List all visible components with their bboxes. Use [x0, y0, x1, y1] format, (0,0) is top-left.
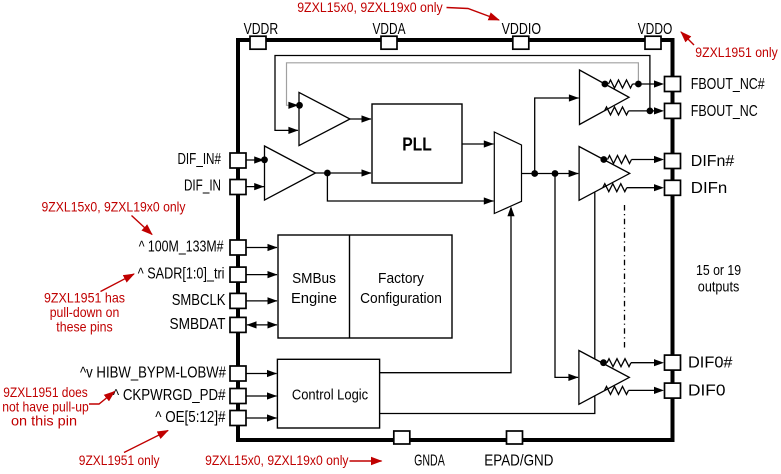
arrowhead into DIF0# pin — [654, 359, 664, 366]
arrowhead into mux input B — [484, 197, 494, 204]
arrowhead SMBDAT back to pin — [247, 321, 257, 328]
arrowhead into feedback buffer inverting input — [288, 102, 298, 109]
pin VDDR — [250, 36, 266, 49]
junction dot FBOUT_NC# tap — [602, 81, 609, 88]
pin DIF_IN — [230, 180, 246, 195]
red arrow to VDDIO — [447, 8, 500, 21]
svg-text:9ZXL15x0, 9ZXL19x0 only: 9ZXL15x0, 9ZXL19x0 only — [205, 452, 348, 468]
wire OE[5:12]# pin to Control Logic — [246, 417, 277, 419]
arrowhead into DIF0 pin — [654, 387, 664, 394]
wire node to DIF0 buffer input — [555, 174, 578, 378]
arrowhead into FBOUT_NC pin — [654, 107, 664, 114]
svg-text:9ZXL1951 only: 9ZXL1951 only — [695, 44, 777, 60]
svg-text:^ SADR[1:0]_tri: ^ SADR[1:0]_tri — [138, 266, 225, 283]
junction node mux output to DIF0 — [552, 170, 559, 177]
wire DIF0 to pin — [629, 389, 656, 391]
wire DIF_IN pin to input buffer — [246, 186, 264, 188]
pin VDDIO — [513, 36, 529, 49]
resistor DIFn series — [603, 184, 627, 192]
wire Control Logic to mux select — [380, 208, 511, 373]
pin SADR[1:0]_tri — [230, 267, 246, 282]
divider between SMBus Engine and Factory Configuration — [349, 235, 351, 338]
svg-text:Configuration: Configuration — [360, 290, 442, 307]
wire DIFn to pin — [627, 187, 655, 189]
red arrow to VDDO — [681, 32, 694, 45]
arrowhead into feedback buffer input — [288, 127, 298, 134]
feedback input buffer — [299, 92, 350, 145]
FBOUT output buffer — [580, 70, 630, 125]
junction node input buffer output — [324, 170, 331, 177]
red arrow to CKPWRGD_PD# — [89, 392, 115, 405]
arrowhead HIBW into Control Logic — [267, 370, 277, 377]
svg-text:DIF_IN#: DIF_IN# — [178, 151, 222, 168]
pin DIFn — [665, 180, 681, 195]
svg-text:SMBus: SMBus — [292, 270, 336, 287]
arrowhead SMBDAT into SMBus — [268, 321, 278, 328]
pin FBOUT_NC# — [665, 77, 681, 92]
arrowhead into DIFn pin — [654, 184, 664, 191]
arrowhead into PLL fb input — [362, 115, 372, 122]
arrowhead OE into Control Logic — [267, 414, 277, 421]
arrowhead into DIFn# pin — [654, 156, 664, 163]
svg-text:Engine: Engine — [291, 290, 337, 307]
svg-text:^ CKPWRGD_PD#: ^ CKPWRGD_PD# — [113, 387, 226, 404]
arrowhead into DIF0 buffer — [568, 374, 578, 381]
junction dot feedback buffer inverting input — [296, 102, 303, 109]
svg-text:DIF0: DIF0 — [688, 383, 726, 400]
pin EPAD/GND — [507, 431, 523, 444]
resistor DIF0# series — [607, 359, 631, 367]
svg-text:^ 100M_133M#: ^ 100M_133M# — [139, 239, 224, 256]
svg-text:^ OE[5:12]#: ^ OE[5:12]# — [155, 409, 226, 426]
svg-text:VDDIO: VDDIO — [502, 21, 541, 38]
wire CKPWRGD_PD# pin to Control Logic — [246, 395, 277, 397]
svg-text:Factory: Factory — [378, 270, 424, 287]
pin GNDA — [394, 431, 410, 444]
wire FBOUT_NC feedback loop — [275, 56, 650, 131]
red arrow to OE[5:12]# — [124, 431, 168, 453]
pin 100M_133M# — [230, 240, 246, 255]
wire Control Logic enable to output buffers — [380, 193, 595, 414]
arrowhead SMBCLK into SMBus — [268, 297, 278, 304]
junction dot DIF0# tap — [600, 359, 607, 366]
wire mux output to DIFn buffer — [522, 173, 579, 175]
pin SMBCLK — [230, 293, 246, 308]
pin VDDO — [645, 36, 661, 49]
svg-text:FBOUT_NC#: FBOUT_NC# — [691, 76, 765, 93]
svg-text:on this pin: on this pin — [11, 413, 77, 429]
DIF_IN input buffer — [265, 146, 316, 200]
pin CKPWRGD_PD# — [230, 389, 246, 404]
pin VDDA — [381, 36, 397, 49]
arrowhead into DIF_IN buffer inverting input — [254, 156, 264, 163]
svg-text:GNDA: GNDA — [414, 452, 445, 469]
svg-text:DIFn: DIFn — [691, 180, 728, 197]
arrowhead into DIF_IN buffer input — [254, 183, 264, 190]
svg-text:DIF_IN: DIF_IN — [184, 178, 221, 195]
wire 100M_133M# pin to SMBus Engine — [246, 247, 277, 249]
arrowhead into FBOUT_NC# pin — [654, 80, 664, 87]
wire input buffer output to PLL input — [316, 172, 372, 174]
ellipsis for repeated outputs — [624, 205, 626, 349]
DIF0 output buffer — [579, 351, 629, 405]
pin HIBW_BYPM-LOBW# — [230, 366, 246, 381]
resistor DIF0 series — [605, 386, 629, 394]
junction dot DIF_IN# input — [261, 156, 268, 163]
wire node to FBOUT buffer input — [535, 98, 579, 174]
DIFn output buffer — [579, 147, 630, 201]
svg-text:these pins: these pins — [56, 318, 112, 334]
svg-text:Control Logic: Control Logic — [292, 387, 369, 404]
arrowhead into FBOUT buffer — [569, 94, 579, 101]
wire HIBW_BYPM-LOBW# pin to Control Logic — [246, 373, 277, 375]
arrowhead into PLL ref input — [362, 169, 372, 176]
svg-text:^v HIBW_BYPM-LOBW#: ^v HIBW_BYPM-LOBW# — [80, 365, 226, 382]
pin OE[5:12]# — [230, 411, 246, 426]
wire SMBCLK pin to SMBus Engine — [246, 300, 277, 302]
red arrow to GNDA — [350, 460, 382, 462]
pin DIF0# — [665, 355, 681, 370]
pin SMBDAT — [230, 317, 246, 332]
pin FBOUT_NC — [665, 103, 681, 118]
wire FBOUT_NC# to pin — [633, 83, 656, 85]
wire FBOUT_NC to pin — [629, 110, 656, 112]
junction dot FBOUT_NC# feedback — [635, 81, 642, 88]
arrowhead into DIFn buffer — [569, 170, 579, 177]
svg-text:15 or 19: 15 or 19 — [696, 262, 741, 279]
wire FBOUT_NC# feedback loop (gray) — [287, 63, 639, 106]
pin DIFn# — [665, 154, 681, 169]
svg-text:PLL: PLL — [402, 133, 432, 154]
PLL block — [372, 104, 462, 183]
svg-text:SMBCLK: SMBCLK — [172, 292, 226, 309]
clock mux — [494, 132, 521, 214]
junction dot DIFn# tap — [600, 156, 607, 163]
svg-text:DIF0#: DIF0# — [688, 355, 733, 372]
wire DIFn# to pin — [632, 159, 656, 161]
arrowhead 100M_133M# into SMBus — [268, 244, 278, 251]
pin DIF0 — [665, 383, 681, 398]
red arrow to 100M_133M# — [132, 216, 153, 235]
SMBus Engine / Factory Configuration block — [278, 235, 452, 338]
wire bypass path to mux input B — [327, 173, 493, 201]
wire SMBDAT pin to SMBus Engine — [247, 324, 277, 326]
arrowhead into mux input A — [484, 140, 494, 147]
svg-text:FBOUT_NC: FBOUT_NC — [691, 103, 758, 120]
arrowhead CKPWRGD into Control Logic — [267, 392, 277, 399]
resistor FBOUT_NC series — [605, 107, 629, 115]
arrowhead SADR into SMBus — [268, 271, 278, 278]
resistor FBOUT_NC# series — [609, 80, 633, 88]
svg-text:SMBDAT: SMBDAT — [170, 316, 226, 333]
wire SADR pin to SMBus Engine — [246, 274, 277, 276]
svg-text:VDDA: VDDA — [373, 21, 406, 38]
wire PLL output to mux input A — [462, 143, 494, 145]
Control Logic block — [277, 359, 379, 428]
junction dot FBOUT_NC feedback — [647, 108, 654, 115]
svg-text:9ZXL15x0, 9ZXL19x0 only: 9ZXL15x0, 9ZXL19x0 only — [297, 0, 443, 15]
svg-text:9ZXL15x0, 9ZXL19x0 only: 9ZXL15x0, 9ZXL19x0 only — [42, 199, 186, 215]
svg-text:9ZXL1951 only: 9ZXL1951 only — [79, 452, 160, 468]
junction node mux output to FBOUT — [531, 170, 538, 177]
svg-text:EPAD/GND: EPAD/GND — [484, 452, 553, 469]
chip boundary — [238, 40, 673, 440]
wire feedback buffer output to PLL input — [350, 118, 371, 120]
wire DIF0# to pin — [631, 362, 655, 364]
svg-text:DIFn#: DIFn# — [691, 153, 735, 170]
svg-text:VDDO: VDDO — [638, 21, 673, 38]
wire DIF_IN# pin to input buffer — [246, 159, 264, 161]
svg-text:outputs: outputs — [698, 279, 740, 296]
arrowhead mux select — [507, 206, 514, 216]
resistor DIFn# series — [608, 156, 632, 164]
svg-text:VDDR: VDDR — [244, 21, 279, 38]
red arrow to SADR — [101, 274, 135, 292]
pin DIF_IN# — [230, 153, 246, 168]
